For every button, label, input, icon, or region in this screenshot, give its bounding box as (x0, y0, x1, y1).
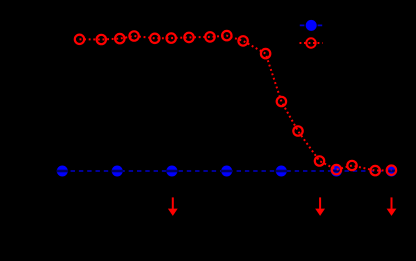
red series dotted line (80, 36, 392, 171)
blue series markers (57, 166, 397, 177)
red arrow 2 (315, 197, 325, 216)
blue series dark band through markers (57, 170, 398, 173)
red arrow 1 (168, 197, 178, 216)
red arrow 3 (387, 197, 397, 216)
blue series dashed line (62, 170, 391, 172)
legend blue entry (300, 20, 323, 31)
red series open-circle markers (75, 31, 396, 175)
legend red entry (300, 38, 323, 47)
